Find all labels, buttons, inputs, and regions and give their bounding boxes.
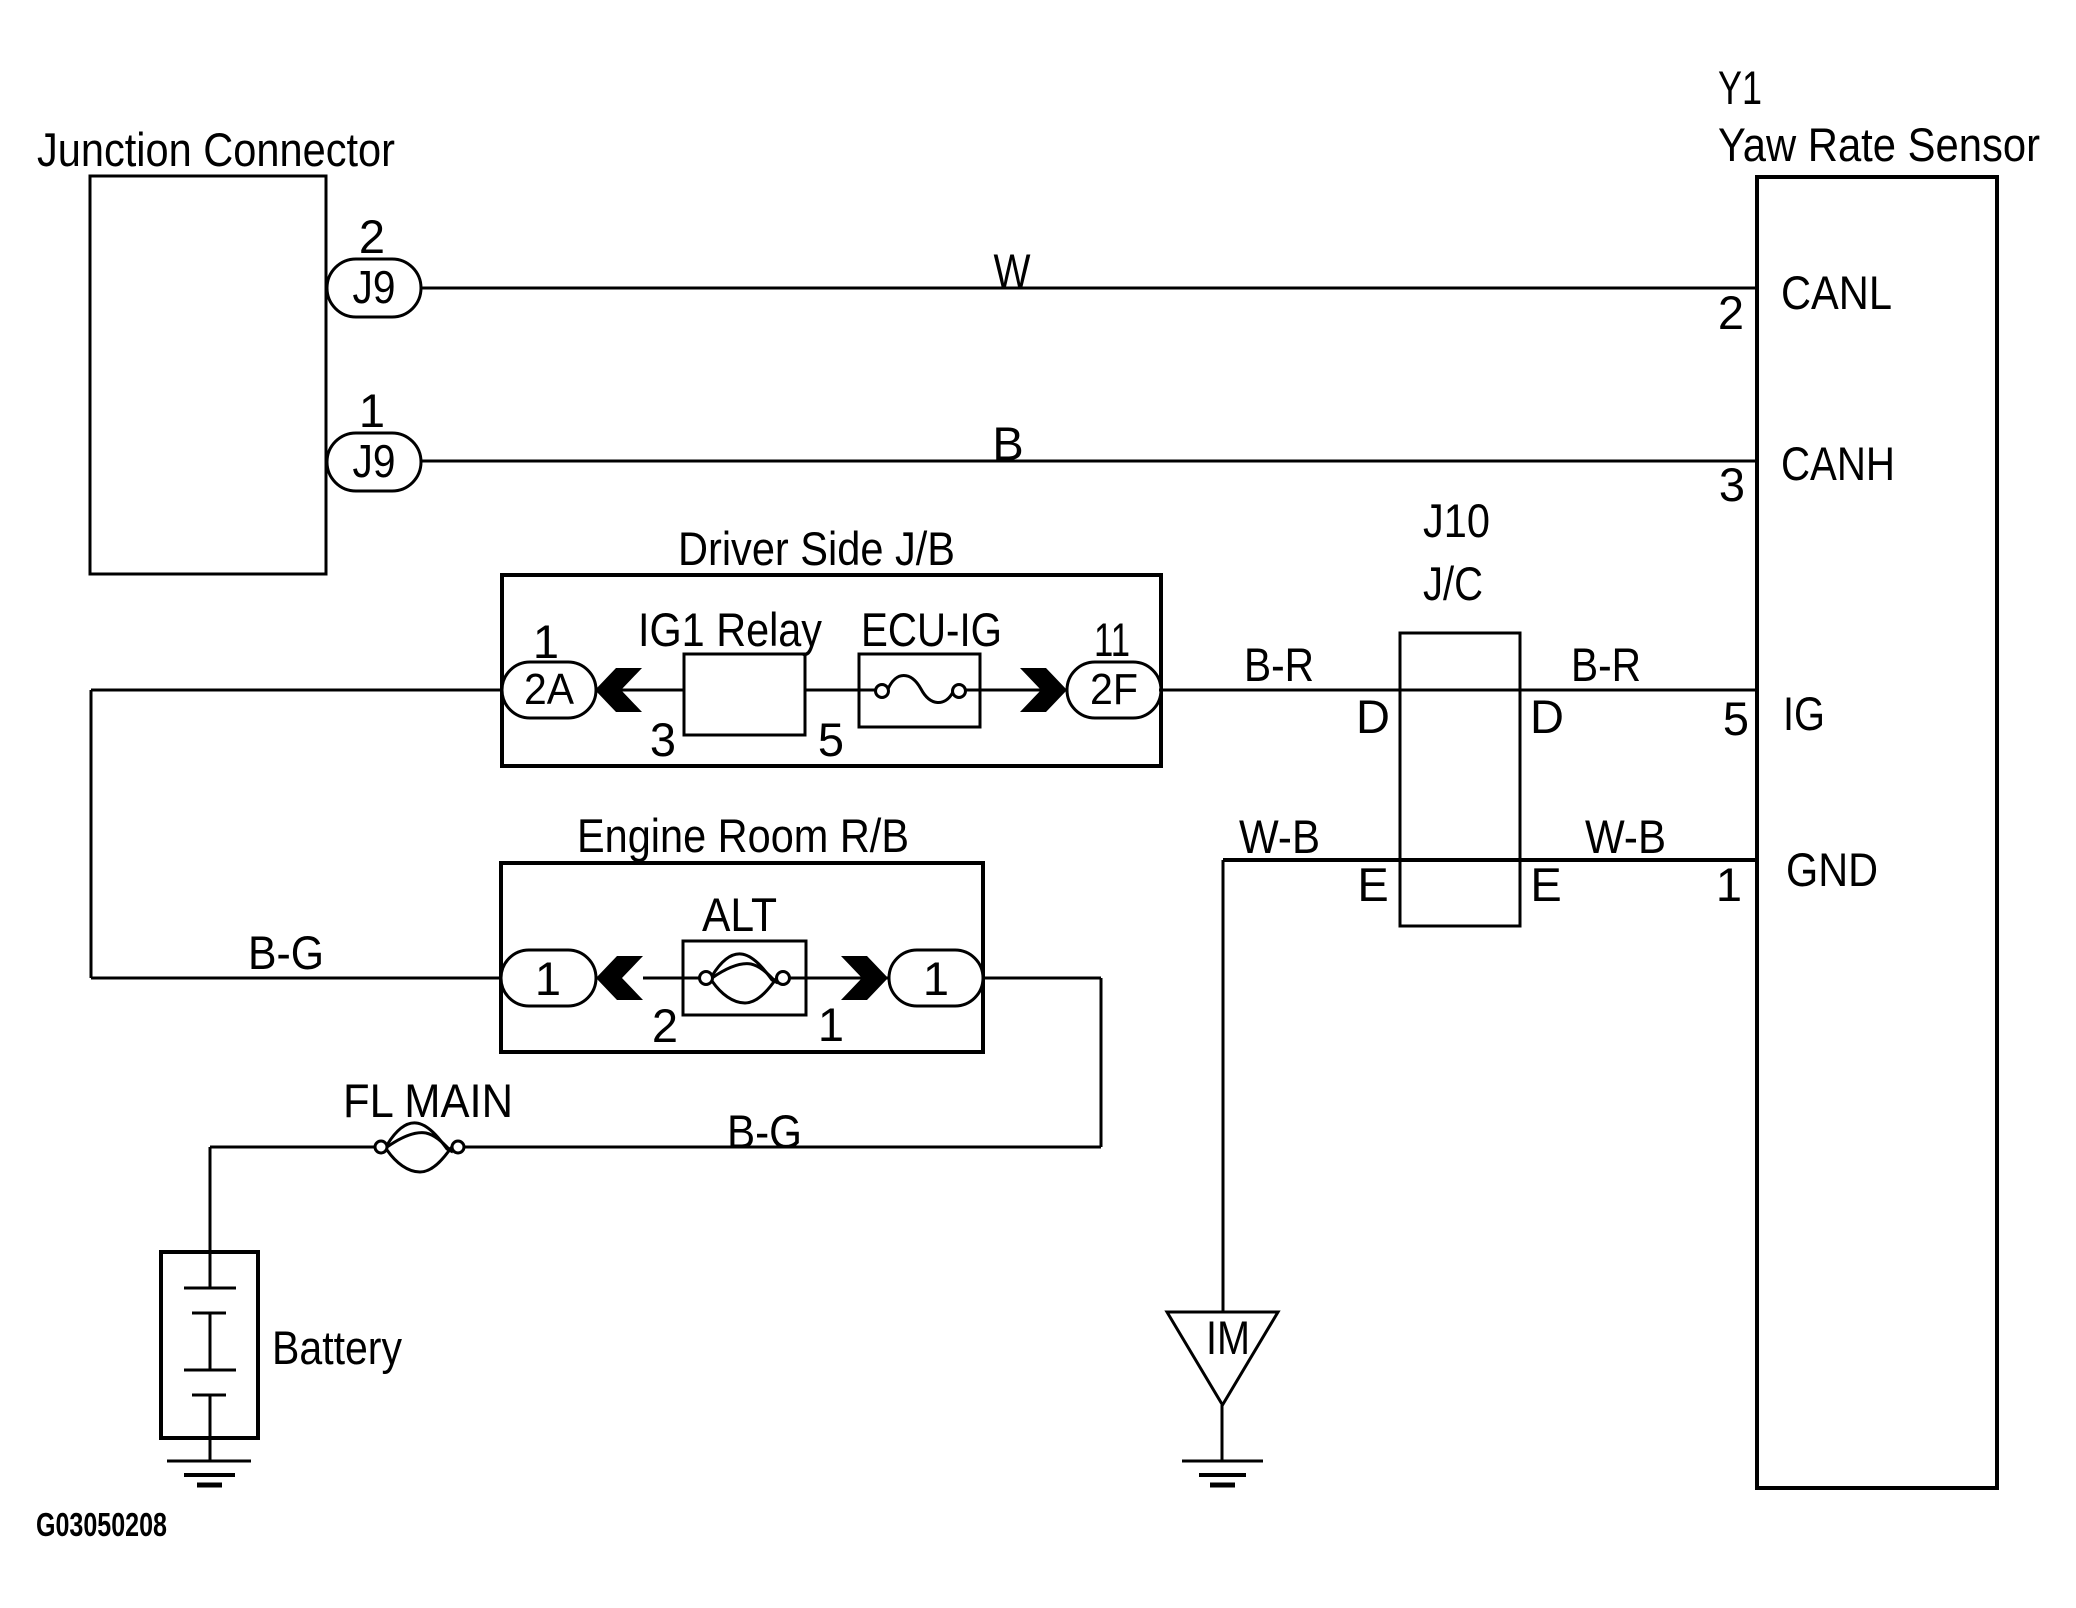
svg-text:B-R: B-R [1571,638,1641,691]
ground point IM triangle [1167,1312,1278,1405]
wire relay to fuse [805,689,877,692]
wire W-B to GND pin [1223,858,1757,862]
engine room R/B box [501,863,983,1052]
yaw rate sensor box Y1 [1757,177,1997,1488]
svg-text:1: 1 [1716,858,1742,911]
arrow left (into oval 1) [596,956,643,1000]
svg-text:3: 3 [650,713,676,766]
svg-text:GND: GND [1786,843,1878,896]
junction connector J10 box [1400,633,1520,926]
svg-text:D: D [1530,690,1564,743]
connector 2F oval [1067,662,1161,718]
svg-text:2: 2 [359,210,385,263]
svg-text:Yaw Rate Sensor: Yaw Rate Sensor [1718,118,2040,171]
svg-text:D: D [1356,690,1390,743]
fuse ECU-IG element [876,685,889,698]
svg-text:B-R: B-R [1244,638,1314,691]
relay IG1 box [684,654,805,735]
battery plate short 2 [192,1394,226,1397]
arrow right (into oval 1 right) [841,956,888,1000]
battery internal wire top [209,1252,212,1288]
wire vertical right of engine room [1100,978,1103,1147]
fuse ECU-IG box [859,654,980,727]
wire W-B vertical [1222,860,1225,1312]
svg-text:1: 1 [818,998,844,1051]
wire arrow to ALT [643,977,683,980]
svg-text:Y1: Y1 [1718,61,1762,114]
svg-text:2F: 2F [1090,665,1138,714]
svg-text:2: 2 [652,999,678,1052]
svg-text:1: 1 [533,615,559,668]
svg-text:B-G: B-G [248,926,324,979]
wire 2A to relay [596,689,684,692]
fusible link ALT box [683,941,806,1015]
wire from junction to 2A [91,689,502,692]
wire ALT to arrow [806,977,889,980]
svg-text:E: E [1530,858,1561,911]
svg-text:J9: J9 [353,435,396,487]
wire B-G to engine room [91,977,501,980]
svg-text:5: 5 [1723,692,1749,745]
wire IM to ground [1221,1405,1224,1461]
svg-text:3: 3 [1719,458,1745,511]
svg-text:ECU-IG: ECU-IG [861,603,1002,656]
wire B-R to IG pin [1159,689,1757,692]
svg-text:J9: J9 [353,261,396,313]
wire vertical left [90,690,93,978]
svg-text:W: W [994,244,1032,297]
svg-text:W-B: W-B [1585,810,1666,863]
svg-text:FL MAIN: FL MAIN [343,1074,513,1127]
svg-text:Engine Room R/B: Engine Room R/B [577,809,909,862]
connector J9 pin 1 oval [327,433,421,491]
connector 2A oval [502,662,596,718]
battery plate long 2 [184,1369,236,1372]
svg-text:11: 11 [1094,613,1130,666]
wire from oval right [983,977,1101,980]
svg-text:W-B: W-B [1239,810,1320,863]
battery internal wire bottom [209,1395,212,1461]
svg-text:E: E [1357,858,1388,911]
arrow right (into 2F) [1020,668,1067,712]
svg-text:Junction Connector: Junction Connector [37,123,395,176]
ground IM [1182,1460,1263,1463]
svg-text:CANH: CANH [1781,437,1895,490]
wire W (CANL net) [421,287,1757,290]
svg-text:B-G: B-G [727,1105,802,1158]
svg-text:2A: 2A [524,665,575,714]
driver side J/B box [502,575,1161,766]
svg-text:J10: J10 [1423,494,1490,547]
svg-text:1: 1 [535,952,561,1005]
svg-text:2: 2 [1718,286,1744,339]
wire B (CANH net) [421,460,1757,463]
svg-text:B: B [992,417,1023,470]
battery box [161,1252,258,1438]
battery internal wire mid [209,1313,212,1370]
wire battery to FL MAIN [210,1146,375,1149]
svg-text:IM: IM [1206,1311,1250,1364]
wire fuse to 2F [966,689,1067,692]
arrow left (into 2A) [595,668,642,712]
wire FL MAIN to engine room [464,1146,1101,1149]
svg-text:J/C: J/C [1423,557,1483,610]
wire down to battery [209,1147,212,1252]
battery plate long 1 [184,1287,236,1290]
connector 1 oval right [889,950,983,1006]
svg-text:G03050208: G03050208 [36,1506,167,1543]
svg-text:Battery: Battery [272,1321,402,1374]
fusible link FL MAIN element [375,1141,387,1153]
junction connector box [90,176,326,574]
svg-text:Driver Side J/B: Driver Side J/B [678,522,955,575]
svg-text:CANL: CANL [1781,266,1892,319]
fusible link ALT element [683,977,700,980]
svg-text:5: 5 [818,713,844,766]
svg-text:IG1 Relay: IG1 Relay [638,603,822,656]
connector J9 pin 2 oval [327,259,421,317]
battery plate short 1 [192,1312,226,1315]
connector 1 oval left [501,950,596,1006]
svg-text:1: 1 [923,952,949,1005]
svg-text:IG: IG [1783,687,1825,740]
svg-text:ALT: ALT [702,888,777,941]
ground battery [167,1460,251,1463]
svg-text:1: 1 [359,384,385,437]
